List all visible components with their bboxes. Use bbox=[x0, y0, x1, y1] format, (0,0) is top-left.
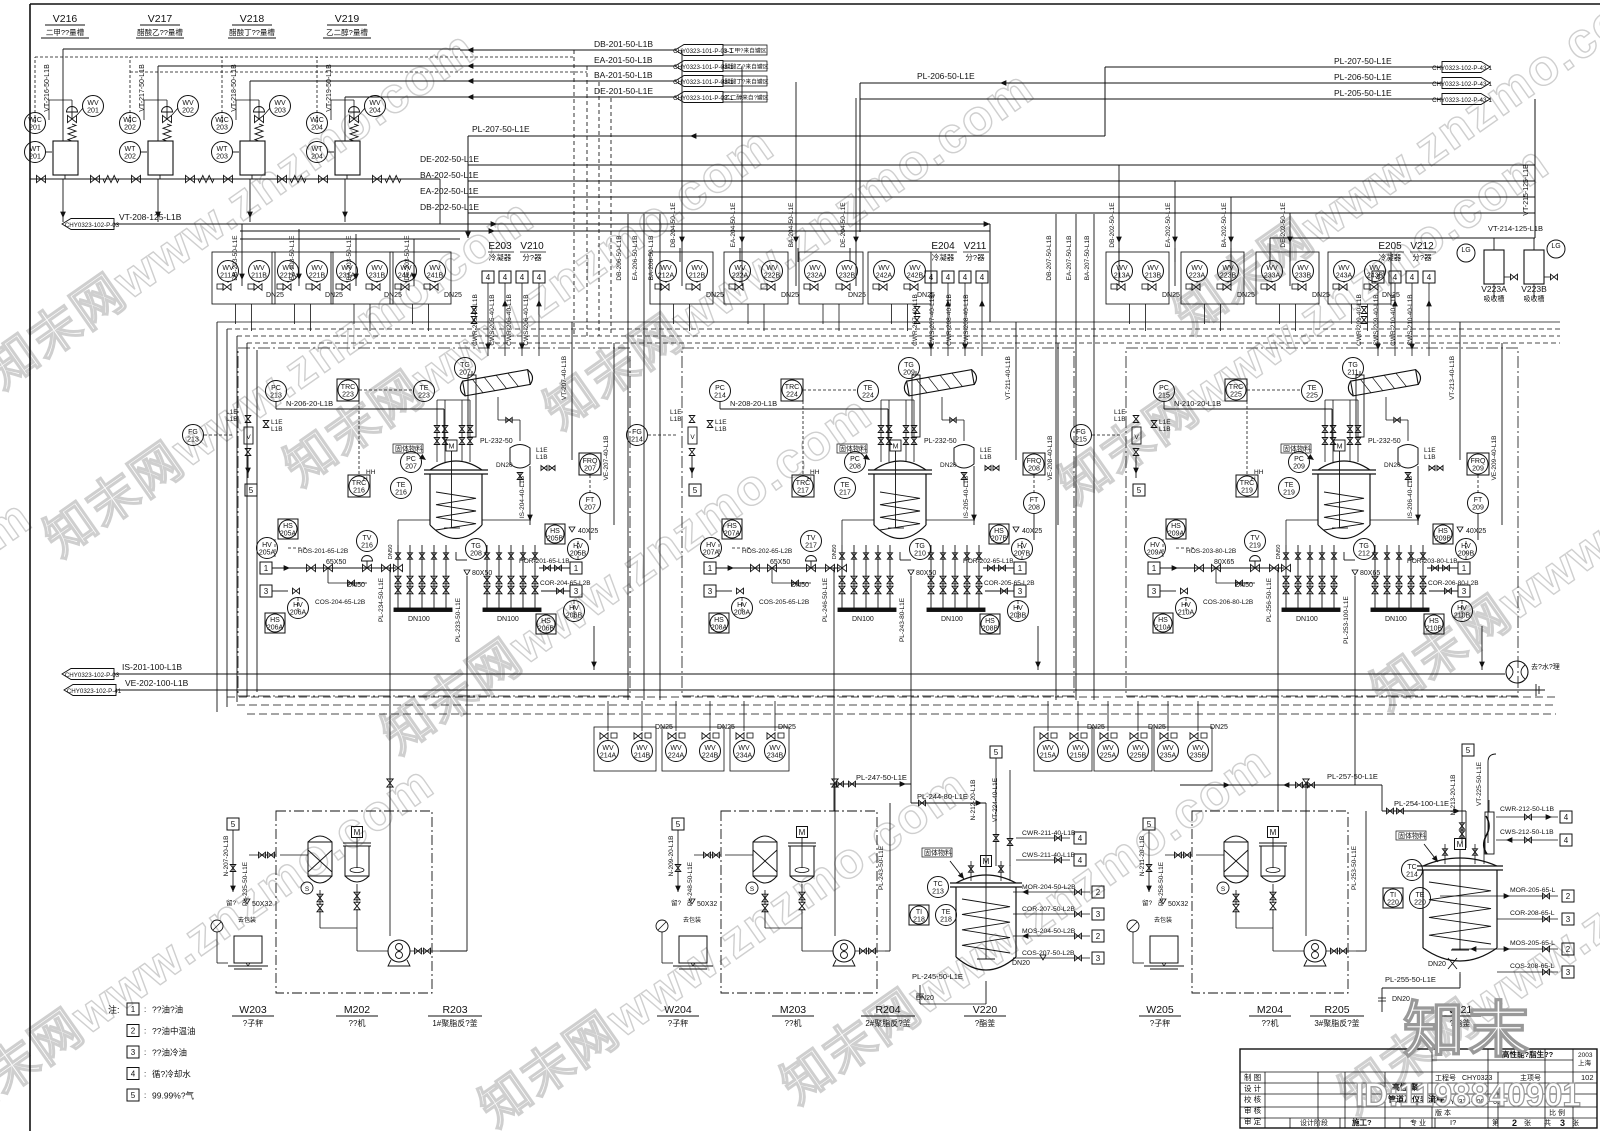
reactor top nozzles bbox=[436, 400, 438, 462]
svg-text:TE: TE bbox=[1285, 482, 1294, 489]
svg-text:M203: M203 bbox=[780, 1004, 806, 1016]
svg-text:219: 219 bbox=[1283, 490, 1295, 497]
svg-text:1: 1 bbox=[708, 564, 713, 573]
dashed battery box unit 204 bbox=[1192, 811, 1348, 993]
pump tie unit2 riser PL-243-50 bbox=[885, 950, 890, 952]
svg-text:WV: WV bbox=[1192, 745, 1204, 752]
svg-text:?子秤: ?子秤 bbox=[1150, 1018, 1170, 1028]
svg-text:去?水?理: 去?水?理 bbox=[1531, 662, 1560, 671]
svg-text:知末: 知末 bbox=[1403, 996, 1533, 1064]
svg-text:DN100: DN100 bbox=[408, 616, 430, 623]
weigh tank W204 bbox=[679, 936, 707, 963]
instrument HS205A bbox=[278, 519, 298, 539]
svg-text:223: 223 bbox=[418, 393, 430, 400]
svg-text:215: 215 bbox=[1075, 437, 1087, 444]
svg-text:WV: WV bbox=[878, 265, 890, 272]
svg-text:FG: FG bbox=[632, 429, 642, 436]
svg-text:MOR-204-50-L2B: MOR-204-50-L2B bbox=[1022, 884, 1076, 891]
svg-text:TE: TE bbox=[841, 482, 850, 489]
valve above WV234A bbox=[747, 733, 753, 738]
absorber V223B bbox=[1524, 250, 1544, 284]
svg-text:DE-202-50-L1E: DE-202-50-L1E bbox=[420, 154, 479, 164]
svg-text:208A: 208A bbox=[711, 625, 728, 632]
instrument TV219 bbox=[1245, 531, 1266, 552]
svg-text:EA-202-50-L1E: EA-202-50-L1E bbox=[1165, 202, 1172, 247]
svg-text:WV: WV bbox=[182, 100, 194, 107]
svg-text:5: 5 bbox=[693, 486, 698, 495]
svg-text:TV: TV bbox=[1251, 535, 1260, 542]
tank outlet pipe V217 bbox=[159, 175, 161, 179]
instrument HV210A bbox=[1176, 598, 1197, 619]
valve above WV224B bbox=[713, 733, 719, 738]
svg-text:HS: HS bbox=[1171, 523, 1181, 530]
title block table bbox=[1240, 1049, 1597, 1128]
svg-text:WV: WV bbox=[602, 745, 614, 752]
instrument TRC216 bbox=[348, 475, 370, 497]
svg-text:EA-202-50-L1E: EA-202-50-L1E bbox=[420, 186, 479, 196]
instrument HS209B bbox=[1433, 524, 1453, 544]
svg-text:232B: 232B bbox=[839, 273, 856, 280]
svg-text:??机: ??机 bbox=[349, 1018, 366, 1028]
svg-text:HS: HS bbox=[283, 523, 293, 530]
svg-text:209: 209 bbox=[1472, 466, 1484, 473]
svg-text:L1E: L1E bbox=[536, 447, 548, 454]
svg-text:EA-201-50-L1B: EA-201-50-L1B bbox=[594, 55, 653, 65]
solenoid valve under WV213A bbox=[1111, 284, 1117, 289]
pipe VE-202-100-L1B bbox=[116, 689, 1545, 691]
reactor train 1 vessel R203 bbox=[430, 461, 482, 470]
svg-text:209A: 209A bbox=[1147, 550, 1164, 557]
reactor coil bbox=[436, 492, 476, 530]
svg-text:IS-206-40-L1B: IS-206-40-L1B bbox=[1407, 476, 1414, 518]
svg-text:L1B: L1B bbox=[536, 454, 548, 461]
sub header line y239 bbox=[240, 238, 460, 240]
svg-text:R203: R203 bbox=[442, 1004, 467, 1016]
condenser E bbox=[903, 369, 977, 396]
svg-text:COS-207-50-L2B: COS-207-50-L2B bbox=[1022, 950, 1075, 957]
svg-text:PL-246-50-L1E: PL-246-50-L1E bbox=[822, 577, 829, 622]
svg-text:W203: W203 bbox=[239, 1004, 267, 1016]
svg-text::: : bbox=[144, 1070, 146, 1079]
instrument WV223B bbox=[1218, 261, 1239, 282]
svg-text:循?冷却水: 循?冷却水 bbox=[152, 1069, 191, 1079]
svg-text:M: M bbox=[893, 444, 899, 451]
svg-text:COS-204-65-L2B: COS-204-65-L2B bbox=[315, 599, 365, 606]
svg-text:3: 3 bbox=[574, 587, 579, 596]
reactor top nozzles bbox=[880, 400, 882, 462]
svg-text:L1E: L1E bbox=[1424, 447, 1436, 454]
svg-text:PL-206-50-L1E: PL-206-50-L1E bbox=[1334, 72, 1392, 82]
svg-text:CHY0323-102-P-43-1: CHY0323-102-P-43-1 bbox=[1432, 65, 1492, 72]
svg-text:202: 202 bbox=[124, 154, 136, 161]
svg-text:N-209-20-L1B: N-209-20-L1B bbox=[668, 836, 675, 877]
svg-text:冷凝器: 冷凝器 bbox=[932, 252, 955, 262]
svg-text:5: 5 bbox=[1147, 820, 1152, 829]
svg-text:3: 3 bbox=[1560, 1118, 1565, 1128]
svg-text:4: 4 bbox=[520, 273, 525, 282]
instrument WV202 bbox=[178, 96, 199, 117]
reactor coil bbox=[880, 492, 920, 530]
instrument TE219 bbox=[1279, 478, 1300, 499]
svg-text:N-213-20-L1B: N-213-20-L1B bbox=[1450, 775, 1457, 816]
instrument WV201 bbox=[83, 96, 104, 117]
feed line EA-201-50-L1B bbox=[460, 65, 675, 67]
svg-text:施工?: 施工? bbox=[1352, 1117, 1372, 1127]
svg-text:FRQ: FRQ bbox=[1471, 458, 1486, 465]
svg-text:H: H bbox=[1251, 476, 1256, 483]
svg-text:3#聚脂反?釜: 3#聚脂反?釜 bbox=[1314, 1018, 1359, 1028]
weigh tank W205 bbox=[1150, 936, 1178, 963]
svg-text:DN25: DN25 bbox=[717, 724, 735, 731]
V221 vent sight glass bbox=[1485, 812, 1494, 854]
svg-text:HOR-202-65-L1B: HOR-202-65-L1B bbox=[963, 558, 1014, 565]
svg-text:N-206-20-L1B: N-206-20-L1B bbox=[286, 399, 333, 408]
svg-text:V: V bbox=[1134, 434, 1139, 441]
svg-text:COR-204-65-L2B: COR-204-65-L2B bbox=[540, 580, 591, 587]
svg-text:3: 3 bbox=[1152, 587, 1157, 596]
solenoid valve under WV233B bbox=[1292, 284, 1298, 289]
svg-text:DN25: DN25 bbox=[325, 292, 343, 299]
svg-text:设 计: 设 计 bbox=[1244, 1083, 1262, 1093]
reactor coil bbox=[1324, 492, 1364, 530]
svg-text:L1B: L1B bbox=[670, 416, 682, 423]
svg-text:233B: 233B bbox=[1295, 273, 1312, 280]
svg-text:PL-245-50-L1E: PL-245-50-L1E bbox=[912, 972, 963, 981]
note box 3 left bbox=[260, 585, 272, 597]
note box 3 right bbox=[1458, 585, 1470, 597]
svg-text:L1B: L1B bbox=[715, 426, 727, 433]
svg-text:4: 4 bbox=[537, 273, 542, 282]
solenoid valve under WV211B bbox=[248, 284, 254, 289]
svg-text:COS-205-65-L2B: COS-205-65-L2B bbox=[759, 599, 809, 606]
svg-text:WV: WV bbox=[636, 745, 648, 752]
svg-text:WV: WV bbox=[1222, 265, 1234, 272]
svg-text:TE: TE bbox=[864, 385, 873, 392]
svg-text:分?器: 分?器 bbox=[965, 253, 985, 262]
solenoid valve under WV233A bbox=[1261, 284, 1267, 289]
valve above WV234B bbox=[778, 733, 784, 738]
instrument WV211B bbox=[249, 261, 270, 282]
instrument TG211 bbox=[1343, 358, 1364, 379]
svg-text:HOS-203-80-L2B: HOS-203-80-L2B bbox=[1186, 548, 1236, 555]
svg-text:1: 1 bbox=[1152, 564, 1157, 573]
absorber outlet valves bbox=[1504, 276, 1510, 278]
svg-text:PC: PC bbox=[406, 456, 416, 463]
svg-text:DN25: DN25 bbox=[1312, 292, 1330, 299]
svg-text:216: 216 bbox=[395, 490, 407, 497]
svg-text:?酯釜: ?酯釜 bbox=[975, 1018, 995, 1028]
instrument TRC224 bbox=[781, 379, 803, 401]
instrument WV204 bbox=[365, 96, 386, 117]
svg-text:DE-201-50-L1E: DE-201-50-L1E bbox=[594, 86, 653, 96]
pump discharge unit 203 bbox=[855, 950, 885, 952]
svg-text:DN25: DN25 bbox=[1210, 724, 1228, 731]
svg-text:BA-201-50-L1B: BA-201-50-L1B bbox=[594, 70, 653, 80]
instrument TG212 bottom bbox=[1354, 539, 1375, 560]
valve above WV215A bbox=[1051, 733, 1057, 738]
svg-text:WV: WV bbox=[1297, 265, 1309, 272]
instrument WV215A bottom bbox=[1038, 741, 1059, 762]
svg-text:3-工甲?来自罐区: 3-工甲?来自罐区 bbox=[723, 47, 766, 55]
svg-text:CHY0323-102-P-43-1: CHY0323-102-P-43-1 bbox=[1432, 81, 1492, 88]
instrument WV243B bbox=[1365, 261, 1386, 282]
svg-text:4: 4 bbox=[980, 273, 985, 282]
svg-text:注:: 注: bbox=[108, 1004, 120, 1015]
svg-text:242A: 242A bbox=[876, 273, 893, 280]
svg-text:DN20: DN20 bbox=[1384, 462, 1401, 469]
pipe PL-205-50-L1E header bbox=[860, 98, 1442, 100]
svg-text:DN20: DN20 bbox=[916, 995, 934, 1002]
instrument TRC225 bbox=[1225, 379, 1247, 401]
svg-text:DB-203-50-L1E: DB-203-50-L1E bbox=[232, 235, 239, 281]
svg-text:DN25: DN25 bbox=[706, 292, 724, 299]
svg-text:BA-202-50-L1E: BA-202-50-L1E bbox=[1221, 202, 1228, 247]
svg-text:张: 张 bbox=[1572, 1118, 1579, 1127]
svg-text:FRQ: FRQ bbox=[1027, 458, 1042, 465]
svg-text:222B: 222B bbox=[764, 273, 781, 280]
svg-text:3: 3 bbox=[264, 587, 269, 596]
instrument PC208 bbox=[845, 452, 866, 473]
svg-text:208: 208 bbox=[470, 551, 482, 558]
instrument WV241A bbox=[396, 261, 417, 282]
instrument WV215B bottom bbox=[1068, 741, 1089, 762]
tank outlet pipe V219 bbox=[346, 175, 348, 179]
svg-text:CWR-210-40-L1B: CWR-210-40-L1B bbox=[1390, 294, 1397, 346]
svg-text:PL-247-50-L1E: PL-247-50-L1E bbox=[856, 773, 907, 782]
svg-text:203: 203 bbox=[216, 125, 228, 132]
instrument WV225A bottom bbox=[1098, 741, 1119, 762]
svg-text:CHY0323-102-P-03: CHY0323-102-P-03 bbox=[65, 672, 120, 679]
header riser connections left bbox=[241, 224, 243, 286]
mixer vessel M202 bbox=[352, 827, 363, 838]
svg-text:WT: WT bbox=[217, 146, 229, 153]
tank collection header bbox=[40, 178, 440, 180]
svg-text:TG: TG bbox=[915, 543, 925, 550]
svg-text:HV: HV bbox=[262, 542, 272, 549]
solenoid valve under WV243A bbox=[1333, 284, 1339, 289]
instrument HV208B bbox=[1008, 601, 1029, 622]
instrument WV242A bbox=[874, 261, 895, 282]
svg-text:??油中温油: ??油中温油 bbox=[152, 1026, 195, 1036]
manifold right DN100 bbox=[486, 545, 488, 608]
solenoid valve under WV211A bbox=[217, 284, 223, 289]
drain line to IS header bbox=[593, 626, 595, 670]
svg-text:214: 214 bbox=[631, 437, 643, 444]
instrument WT204 bbox=[307, 142, 328, 163]
svg-text:IS-205-40-L1B: IS-205-40-L1B bbox=[963, 476, 970, 518]
svg-text:FRQ: FRQ bbox=[583, 458, 598, 465]
svg-text:DB-204-50-L1E: DB-204-50-L1E bbox=[670, 202, 677, 248]
header riser connections mid bbox=[681, 50, 683, 286]
vessel dome nozzle valves bbox=[1444, 844, 1446, 864]
svg-text:DB-202-50-L1E: DB-202-50-L1E bbox=[1109, 202, 1116, 248]
svg-text:209: 209 bbox=[1293, 464, 1305, 471]
svg-text:BA-207-50-L1B: BA-207-50-L1B bbox=[1084, 236, 1091, 281]
instrument PC213 left bbox=[266, 381, 287, 402]
control valve feed V218 bbox=[255, 115, 264, 122]
instrument PC209 bbox=[1289, 452, 1310, 473]
svg-text:209B: 209B bbox=[1435, 536, 1452, 543]
solenoid valve under WV223B bbox=[1217, 284, 1223, 289]
svg-text:HH: HH bbox=[1254, 469, 1264, 476]
svg-text:DN20: DN20 bbox=[1428, 961, 1446, 968]
svg-text:?子秤: ?子秤 bbox=[668, 1018, 688, 1028]
svg-text:TG: TG bbox=[460, 362, 470, 369]
svg-text:5: 5 bbox=[1137, 486, 1142, 495]
reflux column tube bbox=[912, 375, 920, 437]
svg-text:FT: FT bbox=[586, 497, 595, 504]
svg-text:HS: HS bbox=[994, 528, 1004, 535]
svg-text:分?器: 分?器 bbox=[522, 253, 542, 262]
solenoid valve under WV222B bbox=[761, 284, 767, 289]
svg-text:221B: 221B bbox=[309, 273, 326, 280]
svg-text:40X25: 40X25 bbox=[1466, 528, 1486, 535]
svg-text:WV: WV bbox=[369, 100, 381, 107]
svg-text:固体物料: 固体物料 bbox=[924, 848, 952, 857]
weigh tank W203 bbox=[234, 936, 262, 963]
agitator motor M bbox=[1334, 440, 1345, 451]
svg-text:4: 4 bbox=[1410, 273, 1415, 282]
svg-text:DN25: DN25 bbox=[1162, 292, 1180, 299]
svg-text:审 定: 审 定 bbox=[1244, 1116, 1262, 1126]
svg-text:ID:1198840901: ID:1198840901 bbox=[1355, 1076, 1581, 1113]
svg-text:4: 4 bbox=[1376, 273, 1381, 282]
train battery limit dashed boxes bbox=[238, 348, 630, 696]
svg-text:225B: 225B bbox=[1130, 753, 1147, 760]
solenoid valve under WV231B bbox=[366, 284, 372, 289]
svg-text:留?: 留? bbox=[226, 898, 237, 907]
instrument WT203 bbox=[212, 142, 233, 163]
svg-text:BA-204-50-L1E: BA-204-50-L1E bbox=[788, 202, 795, 247]
svg-text:EA-207-50-L1B: EA-207-50-L1B bbox=[1066, 236, 1073, 281]
filter vessel unit 204 bbox=[1224, 836, 1248, 842]
feed drop line unit 204 bbox=[1305, 783, 1307, 936]
flag CHY0323-102-P VT-208 bbox=[62, 219, 114, 230]
svg-text:3: 3 bbox=[708, 587, 713, 596]
svg-text:5: 5 bbox=[249, 486, 254, 495]
connections reactor to manifolds bbox=[842, 519, 874, 521]
svg-text:CWS-210-40-L1B: CWS-210-40-L1B bbox=[1407, 294, 1414, 345]
inlet valves unit 203 bbox=[704, 852, 711, 858]
svg-text:1: 1 bbox=[1462, 564, 1467, 573]
svg-text:HOS-202-65-L2B: HOS-202-65-L2B bbox=[742, 548, 792, 555]
note box 5 bbox=[245, 484, 257, 496]
svg-text:V220: V220 bbox=[973, 1004, 998, 1016]
note box 3 left bbox=[704, 585, 716, 597]
header drop to VT-208 line bbox=[439, 179, 441, 224]
svg-text:留?: 留? bbox=[671, 898, 682, 907]
instrument FG215 bbox=[1071, 425, 1092, 446]
signal dashed horizontals top-left bbox=[35, 56, 574, 58]
svg-text:HS: HS bbox=[1429, 618, 1439, 625]
svg-text:I?: I? bbox=[1450, 1118, 1456, 1127]
svg-text:215: 215 bbox=[1158, 393, 1170, 400]
svg-text:TV: TV bbox=[807, 535, 816, 542]
instrument WV213A bbox=[1112, 261, 1133, 282]
svg-text:WV: WV bbox=[1072, 745, 1084, 752]
instrument FT207 bbox=[580, 493, 601, 514]
svg-text:CWS-206-40-L1B: CWS-206-40-L1B bbox=[523, 294, 530, 345]
svg-text:COR-205-65-L2B: COR-205-65-L2B bbox=[984, 580, 1035, 587]
svg-text:L1B: L1B bbox=[1114, 416, 1126, 423]
svg-text:225A: 225A bbox=[1100, 753, 1117, 760]
svg-text:207: 207 bbox=[459, 370, 471, 377]
svg-text:TC: TC bbox=[1407, 864, 1416, 871]
control valve TV216 bbox=[363, 564, 372, 571]
svg-text:H: H bbox=[363, 476, 368, 483]
control valve feed V219 bbox=[350, 115, 359, 122]
S bubble unit 203 bbox=[746, 882, 758, 894]
feed drop line unit 203 bbox=[834, 783, 836, 936]
svg-text:224: 224 bbox=[786, 392, 798, 399]
svg-text:2003: 2003 bbox=[1578, 1052, 1593, 1059]
instrument WV223A bbox=[1187, 261, 1208, 282]
svg-text:VT-213-40-L1B: VT-213-40-L1B bbox=[1449, 356, 1456, 400]
svg-text:WV: WV bbox=[691, 265, 703, 272]
instrument TV217 bbox=[801, 531, 822, 552]
instrument WIC201 bbox=[25, 113, 46, 134]
separator catchpot bbox=[1398, 445, 1418, 469]
svg-text:MOS-205-65-L: MOS-205-65-L bbox=[1510, 940, 1555, 947]
note box 1 right bbox=[570, 562, 582, 574]
svg-text:HS: HS bbox=[1438, 528, 1448, 535]
mixer vessel M204 bbox=[1268, 827, 1279, 838]
instrument HS207A bbox=[722, 519, 742, 539]
svg-text:DE-203-50-L1E: DE-203-50-L1E bbox=[404, 235, 411, 281]
svg-text:210: 210 bbox=[914, 551, 926, 558]
V220 bottom outlet bbox=[985, 995, 987, 1004]
svg-text:5: 5 bbox=[231, 820, 236, 829]
instrument TRC223 bbox=[337, 379, 359, 401]
svg-text:223: 223 bbox=[342, 392, 354, 399]
transfer line to pump unit 202 bbox=[356, 909, 358, 951]
svg-text:HS: HS bbox=[550, 528, 560, 535]
svg-text:设计阶段: 设计阶段 bbox=[1300, 1118, 1328, 1127]
instrument WV235B bottom bbox=[1188, 741, 1209, 762]
valve above WV225B bbox=[1141, 733, 1147, 738]
svg-text:205A: 205A bbox=[259, 550, 276, 557]
tank outlet pipe V216 bbox=[64, 175, 66, 179]
svg-text:3: 3 bbox=[131, 1048, 136, 1057]
svg-text:醋酸乙??量槽: 醋酸乙??量槽 bbox=[137, 27, 183, 37]
reactor train 3 vessel R205 bbox=[1318, 461, 1370, 470]
instrument WV222A bbox=[730, 261, 751, 282]
svg-text:234A: 234A bbox=[736, 753, 753, 760]
svg-text:TE: TE bbox=[942, 909, 951, 916]
svg-text:VT-215-125-L1B: VT-215-125-L1B bbox=[1523, 164, 1530, 216]
svg-text:N-212-20-L1B: N-212-20-L1B bbox=[970, 780, 977, 821]
svg-text:CWS-207-40-L1B: CWS-207-40-L1B bbox=[929, 294, 936, 345]
svg-text:1: 1 bbox=[131, 1005, 136, 1014]
agitator motor M bbox=[890, 440, 901, 451]
svg-text:V217: V217 bbox=[148, 13, 173, 25]
svg-text:CWR-206-40-L1B: CWR-206-40-L1B bbox=[506, 294, 513, 346]
rotameter and valves nitrogen bbox=[1132, 427, 1141, 444]
instrument TI220 bbox=[1383, 888, 1403, 908]
instrument WV225B bottom bbox=[1128, 741, 1149, 762]
instrument WV214A bottom bbox=[598, 741, 619, 762]
svg-text:EA-203-50-L1E: EA-203-50-L1E bbox=[289, 235, 296, 280]
pump tie unit3 riser bbox=[1356, 950, 1366, 952]
svg-text:N-208-20-L1B: N-208-20-L1B bbox=[730, 399, 777, 408]
svg-text:VT-208-125-L1B: VT-208-125-L1B bbox=[119, 212, 182, 222]
svg-text:208: 208 bbox=[1028, 505, 1040, 512]
svg-text:留?: 留? bbox=[1142, 898, 1153, 907]
svg-text:上海: 上海 bbox=[1578, 1058, 1592, 1067]
DN50 bypass bbox=[1215, 568, 1217, 583]
filter vessel unit 203 bbox=[753, 836, 777, 842]
instrument TC214 bbox=[1402, 860, 1423, 881]
